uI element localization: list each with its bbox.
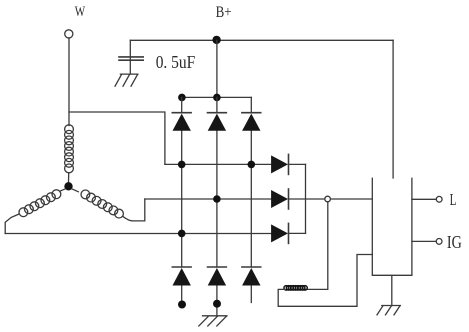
wire column 1	[181, 97, 183, 301]
terminal W	[65, 30, 73, 38]
wire IG lead	[412, 240, 436, 242]
wire node down to field coil	[306, 202, 328, 290]
node col2-line2	[213, 195, 221, 203]
stator coil C (right slant)	[81, 190, 123, 218]
wire field coil left lead	[278, 255, 372, 307]
svg-text:IG: IG	[447, 232, 462, 252]
diode D9 (trio bottom)	[271, 223, 305, 243]
wire coil C tail step up	[123, 199, 145, 221]
diode D6	[242, 267, 261, 286]
wire B+ down to bridge	[216, 40, 218, 97]
diode D4	[172, 267, 191, 286]
stator coil A (vertical)	[65, 125, 74, 173]
wire star to coil B	[60, 189, 66, 192]
wire phase-A tap	[69, 112, 165, 164]
node star point	[64, 182, 72, 190]
terminal L	[436, 196, 442, 202]
wire column 2	[216, 97, 218, 315]
svg-text:W: W	[75, 4, 86, 20]
wire L lead	[412, 198, 436, 200]
node col3-line1	[248, 161, 256, 169]
svg-text:L: L	[450, 190, 457, 209]
diode D1	[172, 113, 191, 131]
terminal IG	[436, 239, 442, 245]
node trio output (open)	[325, 196, 331, 202]
node col1-line1	[178, 161, 186, 169]
wire node to regulator	[331, 198, 373, 200]
wire bridge top bus	[182, 96, 252, 98]
node col1-line3	[178, 230, 186, 238]
ground under capacitor	[115, 74, 138, 86]
wire W lead down	[68, 38, 70, 126]
wire B+ bus	[130, 39, 393, 41]
wire regulator ground lead	[391, 275, 393, 305]
wire phase line 2	[145, 198, 271, 200]
node bus-col2	[213, 94, 221, 102]
node B+	[212, 36, 220, 44]
wire column 3	[250, 97, 252, 302]
diode D7 (trio top)	[271, 154, 305, 174]
diode D3	[242, 113, 261, 131]
terminal col1 bottom	[178, 301, 186, 309]
wire trio output to node	[289, 198, 325, 200]
wire coil B to bottom line	[5, 214, 19, 234]
svg-text:0. 5uF: 0. 5uF	[156, 52, 196, 72]
ground under regulator	[377, 306, 400, 315]
regulator box	[372, 178, 412, 275]
wire trio cathode bus	[305, 164, 307, 233]
stator coil B (left slant)	[19, 190, 61, 217]
capacitor C1	[129, 40, 131, 74]
wire coil A to star point	[68, 173, 70, 183]
ground under bridge	[199, 316, 227, 326]
diode D5	[208, 267, 227, 286]
node col2 bottom	[213, 300, 221, 308]
svg-text:B+: B+	[216, 4, 232, 21]
wire phase line 3	[5, 233, 271, 235]
wire regulator top lead	[392, 40, 394, 178]
wire star to coil C	[72, 189, 79, 192]
wire phase line 1	[165, 163, 271, 165]
field coil (rotor)	[284, 286, 307, 291]
diode D2	[208, 113, 227, 131]
diode D8 (trio middle)	[271, 189, 288, 209]
node bus-col1	[178, 94, 186, 102]
